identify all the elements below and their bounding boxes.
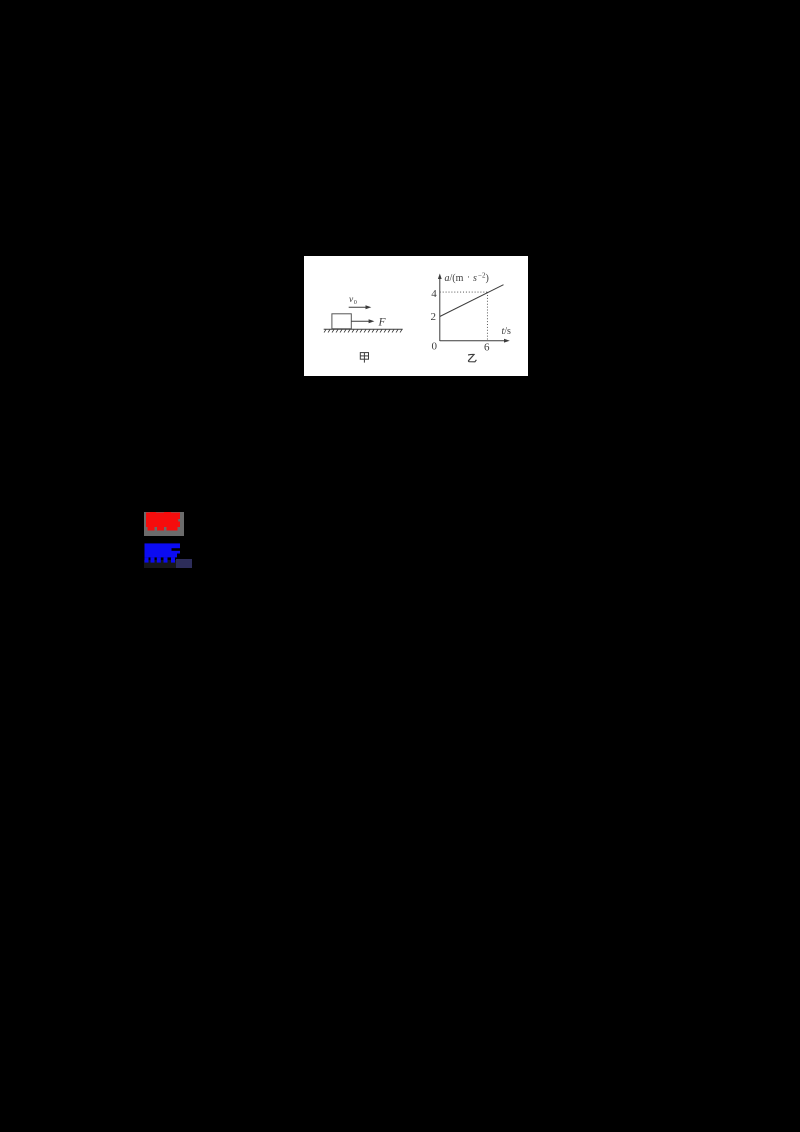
y axis [439,278,441,341]
analysis tag (blue hyperlink-style) [144,543,192,568]
a-t line [440,285,504,317]
svg-text:2: 2 [431,311,437,323]
force F arrow [351,319,374,323]
dotted line horizontal at a=4 [440,291,488,293]
svg-text:s: s [473,273,477,284]
v0 label [349,295,357,306]
yi (乙) caption drawn as strokes [468,354,476,361]
ground line [324,328,403,330]
v0 velocity arrow [349,305,372,309]
svg-text:6: 6 [484,342,490,354]
svg-text:a/(m: a/(m [445,273,464,284]
svg-text:): ) [486,273,489,284]
dotted line vertical at t=6 [486,292,488,341]
svg-text:0: 0 [432,341,438,353]
answer tag (red text on gray) [144,512,184,536]
jia (甲) caption drawn as strokes [360,353,368,363]
svg-text:·: · [467,272,470,282]
svg-text:0: 0 [354,299,357,306]
svg-text:t/s: t/s [502,326,512,337]
axis label a/(m·s-2) [445,272,489,285]
svg-text:F: F [378,317,387,329]
navy corner block [176,559,192,568]
svg-text:4: 4 [431,288,437,300]
ground hatching [324,330,402,333]
faint dark strip [144,560,184,568]
block M [332,314,351,329]
x axis [440,340,506,342]
figure panel (white) [304,256,528,376]
